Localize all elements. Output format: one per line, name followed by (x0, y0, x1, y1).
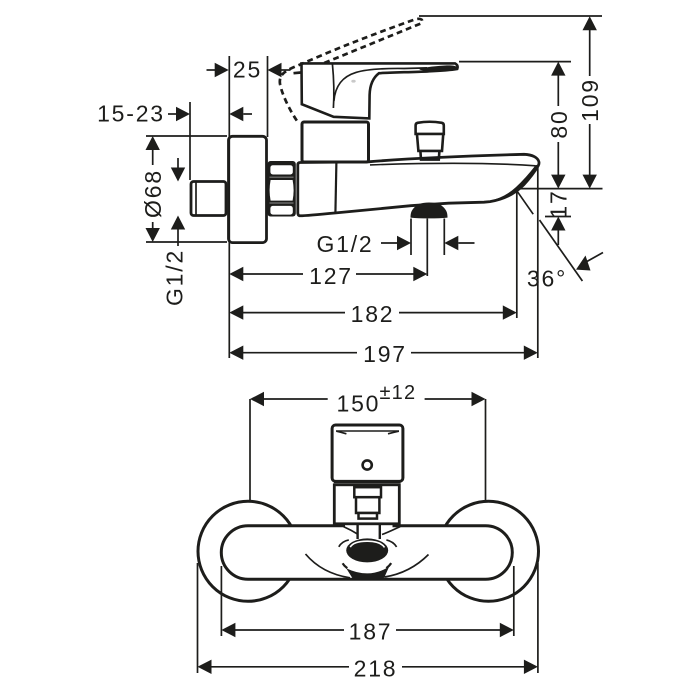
svg-text:±12: ±12 (380, 382, 417, 404)
threaded nipple G1/2 (191, 182, 226, 216)
36 degree leader arrow (576, 253, 603, 271)
bell flares (344, 517, 358, 524)
extension line from spout underside (182) (516, 192, 518, 319)
extension line from spout tip (197) (537, 167, 539, 358)
svg-text:15-23: 15-23 (97, 101, 165, 127)
svg-text:187: 187 (349, 619, 393, 645)
dimension 109 (583, 16, 597, 188)
svg-text:G1/2: G1/2 (162, 249, 188, 306)
faucet body + spout outline (298, 154, 539, 215)
svg-text:182: 182 (351, 301, 395, 327)
dimension 25 (207, 63, 291, 77)
dimension G1/2 (wall nipple) (171, 158, 185, 246)
dimension 187 (221, 566, 513, 637)
aerator lower band (344, 564, 391, 581)
eyelash flares (339, 540, 349, 547)
spout underside shading (crescent) (489, 166, 538, 202)
bell sag curves under stem (344, 527, 359, 535)
aerator dome (side) (411, 203, 448, 219)
dimension G1/2 (aerator) (381, 236, 475, 250)
svg-text:G1/2: G1/2 (316, 231, 373, 257)
wire: nipple end extension line (189, 102, 191, 180)
dimension 150 +-12 (250, 392, 486, 500)
dimension Ø68 (146, 136, 228, 242)
svg-text:197: 197 (363, 341, 407, 367)
svg-text:80: 80 (546, 109, 572, 138)
36 degree slant line (517, 191, 533, 214)
wire: escutcheon front extension line (267, 56, 269, 137)
handle stem neck (front view) (358, 518, 379, 539)
svg-text:25: 25 (233, 57, 262, 83)
dimension 15-23 (168, 107, 252, 121)
reference line (handle top) (459, 61, 571, 63)
reference line (dashed handle top) (419, 15, 602, 17)
handle (solid) (302, 63, 458, 118)
aerator (front view) (346, 538, 388, 562)
dimension 218 (198, 563, 538, 674)
cartridge block (302, 122, 369, 162)
union nut (268, 161, 296, 217)
svg-text:17: 17 (546, 189, 572, 218)
dimension 182 (229, 305, 517, 319)
handle raised position (dashed) (280, 19, 422, 121)
nipple thread end line (195, 183, 197, 215)
wire: wall extension line (228, 56, 230, 358)
svg-text:36°: 36° (527, 266, 567, 292)
left escutcheon circle (198, 501, 298, 601)
shower outlet port (top) (416, 122, 444, 160)
handle top (front) (332, 425, 403, 481)
body bar (stadium) (221, 526, 512, 579)
body/spout joint line (335, 162, 336, 213)
spout top inner line (370, 163, 536, 165)
svg-text:127: 127 (309, 263, 353, 289)
svg-text:150: 150 (337, 391, 381, 417)
reference line (spout bottom) (517, 188, 603, 190)
svg-text:Ø68: Ø68 (140, 169, 166, 218)
smile curves (306, 554, 351, 578)
dimension 197 (229, 346, 538, 360)
svg-text:218: 218 (354, 655, 398, 681)
dimension 80 (551, 62, 565, 189)
aerator extension lines (410, 219, 412, 256)
dimension 127 (229, 267, 427, 281)
dimension 17 (545, 217, 571, 246)
escutcheon (wall plate, side) (229, 136, 267, 242)
svg-text:109: 109 (577, 78, 603, 122)
handle skirt + stem (334, 482, 401, 523)
right escutcheon circle (439, 501, 539, 601)
